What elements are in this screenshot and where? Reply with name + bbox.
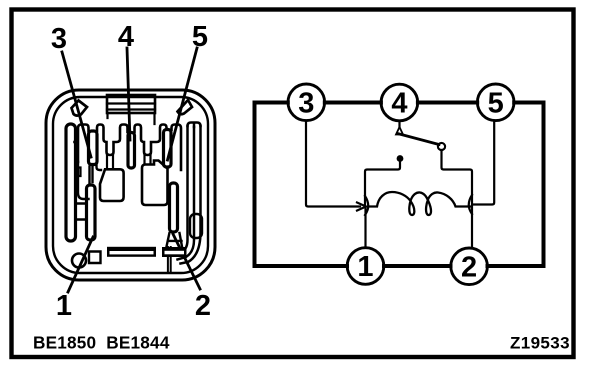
bottom right bar slot [162, 247, 187, 257]
leader line to pin 1 [68, 237, 93, 292]
bottom bar slot [107, 247, 156, 257]
right cavity [142, 161, 168, 206]
right corridor wall c [181, 126, 201, 264]
leader line to pin 5 [168, 48, 198, 160]
pin 2 stem [168, 247, 171, 272]
molding post left of pin 3 [75, 125, 89, 163]
svg-text:3: 3 [51, 23, 67, 55]
svg-text:5: 5 [192, 21, 208, 53]
wire junction to pin1 [364, 208, 366, 248]
switch pivot below pin4 [398, 121, 400, 127]
right corridor pocket [190, 214, 202, 238]
wire pin3 to coil junction [306, 121, 360, 207]
junction bump right [469, 195, 472, 214]
molding channel between pins 4 and 5 [135, 125, 167, 156]
comb legs above right cavity [145, 155, 151, 164]
wire fixed contact to left junction [365, 161, 400, 205]
mounting tab top-right [178, 100, 193, 114]
terminal circle 2 [451, 248, 488, 285]
wire right junction to pin2 [471, 205, 473, 248]
leader line to pin 3 [62, 52, 91, 157]
fixed contact dot [397, 156, 403, 162]
schematic box [255, 103, 544, 267]
pin 2 funnel [166, 233, 182, 247]
svg-text:5: 5 [488, 88, 504, 120]
svg-text:BE1850 BE1844: BE1850 BE1844 [33, 333, 170, 353]
wire pin5 to right junction [473, 121, 494, 205]
wire switch contact to right junction [442, 150, 473, 203]
switch pivot triangle [396, 127, 403, 135]
terminal circle 4 [381, 84, 418, 121]
svg-text:2: 2 [195, 290, 211, 322]
funnel below pin 3 slot [78, 162, 101, 199]
right corridor top cap [188, 123, 201, 128]
pin 3 terminal slot [89, 131, 98, 165]
top vent slot [107, 95, 155, 124]
left tall slot [66, 124, 76, 241]
bridge between left slot and pin 1 slot [76, 204, 87, 220]
bottom index hole [72, 254, 86, 268]
left cavity [100, 169, 124, 201]
relay coil [368, 192, 470, 215]
svg-text:1: 1 [56, 290, 72, 322]
right corridor wall b [178, 127, 195, 260]
connector inner shell [53, 97, 208, 273]
leader line to pin 4 [127, 48, 130, 140]
pin 1 terminal slot [87, 185, 96, 240]
bottom notch right of hole [89, 252, 101, 264]
terminal circle 5 [477, 84, 514, 121]
pin 5 terminal slot [164, 130, 172, 168]
connector outer shell [46, 90, 215, 280]
switch arm [398, 134, 440, 145]
molding post right of pin 5 [172, 125, 182, 171]
comb legs above left cavity [107, 155, 113, 169]
left slot upper nub [76, 168, 81, 177]
pin 4 terminal slot [128, 133, 135, 169]
svg-text:1: 1 [357, 251, 373, 283]
terminal circle 1 [347, 248, 384, 285]
pin 2 terminal slot [170, 183, 178, 232]
terminal circle 3 [288, 84, 325, 121]
svg-text:Z19533: Z19533 [510, 334, 570, 353]
right corridor wall a [173, 126, 188, 254]
svg-text:3: 3 [298, 88, 314, 120]
molding channel between pins 3 and 4 [97, 125, 128, 156]
switch contact circle [438, 143, 445, 150]
mounting tab top-left [72, 101, 88, 116]
leader line to pin 2 [173, 234, 200, 289]
junction bump left [357, 196, 368, 215]
svg-text:2: 2 [461, 252, 477, 284]
svg-text:4: 4 [391, 88, 407, 120]
